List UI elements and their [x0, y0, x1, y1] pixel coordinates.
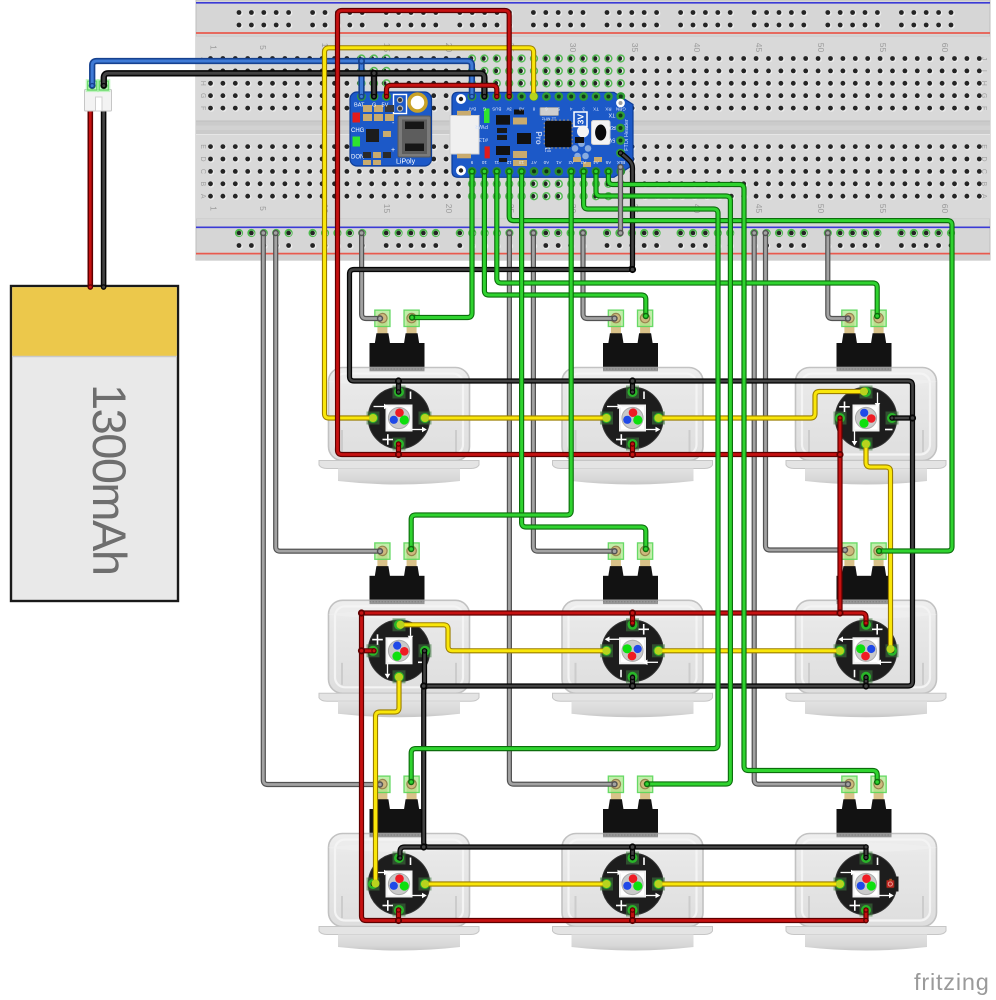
- battery JST connector: [85, 79, 112, 111]
- wire: Trinket 3V to NeoPixel row1 + rail (red): [338, 11, 843, 458]
- NeoPixel LED6: [834, 618, 899, 683]
- wire: NeoPixel7 + drop (red): [396, 907, 401, 923]
- wire: black branch to LiPo charger G: [371, 71, 376, 100]
- svg-text:5V: 5V: [608, 137, 615, 143]
- wire: blue branch to LiPo charger BAT: [359, 58, 364, 99]
- svg-text:30: 30: [568, 43, 578, 53]
- wire: Trinket FTDI GND to rail (gray): [617, 164, 623, 236]
- svg-text:A2: A2: [568, 160, 574, 165]
- svg-text:LiPoly: LiPoly: [396, 159, 416, 166]
- svg-text:A: A: [199, 194, 206, 199]
- svg-text:C: C: [980, 169, 987, 174]
- wire: NeoPixel5 GND drop (black): [630, 675, 635, 689]
- svg-text:1300mAh: 1300mAh: [83, 384, 136, 576]
- wire: NeoPixel8 + drop (red): [630, 907, 635, 923]
- svg-text:50: 50: [816, 43, 826, 53]
- wire: NeoPixel2 DOUT to NeoPixel3 DIN (yellow): [654, 387, 868, 422]
- wire: NeoPixel5 + drop (red): [630, 610, 635, 625]
- NeoPixel LED8: [600, 852, 665, 917]
- svg-text:3V: 3V: [506, 106, 511, 111]
- wire: NeoPixel3 + down to row2 (red): [837, 415, 842, 615]
- NeoPixel LED7: [367, 852, 432, 917]
- wire: NeoPixel1 GND drop (black): [396, 378, 401, 394]
- wire: + rail down to row3 (red): [359, 610, 869, 923]
- svg-text:A0: A0: [518, 106, 524, 111]
- breadboard: [196, 0, 990, 260]
- wire: battery - (JST) to Pro Trinket G (black): [101, 73, 487, 99]
- svg-text:G: G: [199, 93, 206, 98]
- svg-text:A0: A0: [543, 160, 549, 165]
- quick-connect terminal J7: [370, 776, 425, 837]
- arcade button S8: [553, 834, 713, 951]
- wire: NeoPixel4 + branch (red): [359, 648, 377, 653]
- wire: NeoPixel3 GND to chain (black): [889, 415, 915, 420]
- svg-text:C: C: [199, 169, 206, 174]
- svg-text:B: B: [199, 181, 206, 186]
- battery BAT1 1300mAh LiPo: [11, 286, 178, 601]
- svg-text:A3: A3: [580, 160, 586, 165]
- wire: switch S1 to GND rail (gray): [358, 230, 383, 322]
- wire: NeoPixel9 + drop (red): [863, 907, 868, 923]
- wire: battery + (JST) to Pro Trinket BAT (blue): [90, 61, 475, 99]
- wire: NeoPixel5 DOUT to NeoPixel4 DIN (yellow): [396, 621, 610, 655]
- svg-text:DON: DON: [351, 155, 364, 161]
- svg-text:11: 11: [494, 160, 499, 165]
- svg-text:I: I: [980, 70, 987, 72]
- svg-text:35: 35: [630, 43, 640, 53]
- wire: NeoPixel7 DOUT to NeoPixel8 DIN (yellow): [421, 880, 611, 888]
- wire: Trinket 11 to switch S3 (green): [494, 168, 881, 319]
- wire: NeoPixel6 DOUT to NeoPixel5 DIN (yellow): [654, 647, 844, 655]
- wire: Trinket 12 to switch S6 (green): [506, 168, 952, 554]
- wire: switch S3 to GND rail (gray): [825, 230, 852, 322]
- wire: NeoPixel4 DOUT to NeoPixel7 DIN (yellow): [371, 673, 403, 888]
- NeoPixel LED3: [834, 386, 899, 451]
- wire: switch S7 to GND rail (gray): [260, 230, 383, 788]
- NeoPixel LED5: [600, 618, 665, 683]
- wire: switch S9 to GND rail (gray): [751, 230, 851, 788]
- svg-text:A1: A1: [556, 160, 562, 165]
- svg-text:TX: TX: [608, 112, 615, 118]
- wire: Trinket A3 to switch S7 (green): [408, 168, 718, 785]
- microcontroller U1 Adafruit Pro Trinket 3V (rotated 180): [450, 92, 633, 177]
- NeoPixel LED4: [367, 618, 432, 683]
- svg-text:D: D: [199, 156, 206, 161]
- arcade button S6: [786, 600, 946, 717]
- wire: switch S6 to GND rail (gray): [762, 230, 848, 553]
- wire: Trinket pin 8 to NeoPixel1 DIN (yellow): [325, 48, 538, 422]
- quick-connect terminal J2: [603, 310, 658, 371]
- quick-connect terminal J1: [370, 310, 425, 371]
- svg-text:13: 13: [519, 160, 524, 165]
- wire: NeoPixel6 GND drop (black): [863, 675, 868, 689]
- svg-text:BAT: BAT: [354, 103, 365, 109]
- arcade button S7: [319, 834, 479, 951]
- svg-text:1: 1: [209, 206, 219, 211]
- svg-text:55: 55: [878, 204, 888, 214]
- svg-text:5: 5: [258, 45, 268, 50]
- wire: NeoPixel1 + drop (red): [396, 441, 401, 457]
- NeoPixel LED1: [367, 386, 432, 451]
- svg-text:5V: 5V: [382, 103, 389, 109]
- svg-text:RX: RX: [605, 106, 611, 111]
- wire: Trinket GND chain through all NeoPixels (black): [350, 150, 913, 849]
- svg-text:D: D: [980, 156, 987, 161]
- wire: NeoPixel4 GND to chain (black): [422, 648, 427, 689]
- arcade button S9: [786, 834, 946, 951]
- battery - lead: [101, 101, 106, 289]
- svg-text:45: 45: [754, 43, 764, 53]
- svg-text:60: 60: [940, 204, 950, 214]
- wire: Trinket A4 to switch S8 (green): [593, 168, 731, 787]
- svg-text:BUS: BUS: [492, 106, 501, 111]
- wire: NeoPixel2 + drop (red): [630, 441, 635, 457]
- svg-text:50: 50: [816, 204, 826, 214]
- svg-text:20: 20: [444, 204, 454, 214]
- svg-text:A4: A4: [593, 160, 599, 165]
- svg-text:B: B: [980, 181, 987, 186]
- svg-text:CHG: CHG: [351, 128, 365, 134]
- svg-text:45: 45: [754, 204, 764, 214]
- arcade button S2: [553, 368, 713, 485]
- NeoPixel LED9: [834, 852, 899, 917]
- svg-text:+: +: [391, 147, 395, 154]
- quick-connect terminal J3: [837, 310, 892, 371]
- wire: switch S8 to GND rail (gray): [506, 230, 618, 788]
- wire: Trinket 10 to switch S2 (green): [481, 168, 649, 319]
- svg-text:Pro: Pro: [534, 131, 543, 144]
- svg-text:H: H: [199, 81, 206, 86]
- NeoPixel chain terminator mark: [884, 877, 899, 892]
- wire: Trinket A2 to switch S4 (green): [408, 168, 574, 552]
- svg-text:FTDI Header: FTDI Header: [624, 119, 630, 151]
- svg-text:PWR: PWR: [475, 123, 488, 129]
- svg-text:TX: TX: [593, 106, 599, 111]
- quick-connect terminal J6: [837, 543, 892, 604]
- svg-text:BAT: BAT: [468, 106, 477, 111]
- svg-text:G: G: [372, 103, 376, 109]
- wire: Trinket 9 to switch S1 (green): [409, 168, 475, 320]
- wire: NeoPixel7 GND drop (black): [397, 844, 426, 860]
- svg-text:40: 40: [692, 43, 702, 53]
- wire: Trinket A5 to switch S9 (green): [605, 168, 880, 785]
- svg-text:15: 15: [382, 204, 392, 214]
- svg-text:G: G: [980, 93, 987, 98]
- svg-text:G: G: [482, 106, 486, 111]
- connected-strip highlights: [358, 55, 624, 200]
- wire: NeoPixel1 DOUT to NeoPixel2 DIN (yellow): [421, 414, 611, 422]
- wire: NeoPixel8 DOUT to NeoPixel9 DIN (yellow): [654, 880, 844, 888]
- svg-text:5: 5: [258, 206, 268, 211]
- svg-text:H: H: [980, 81, 987, 86]
- wire: LiPo charger 5V to Pro Trinket BUS (red): [384, 85, 500, 99]
- quick-connect terminal J4: [370, 543, 425, 604]
- svg-text:RX: RX: [608, 124, 616, 130]
- battery + lead: [88, 101, 93, 289]
- svg-text:E: E: [199, 144, 206, 149]
- quick-connect terminal J8: [603, 776, 658, 837]
- wire: NeoPixel8 GND drop (black): [630, 844, 635, 860]
- wire junctions: [358, 57, 365, 64]
- arcade button S5: [553, 600, 713, 717]
- wire: switch S5 to GND rail (gray): [530, 230, 618, 555]
- svg-text:10: 10: [481, 160, 486, 165]
- wire: switch S2 to GND rail (gray): [580, 230, 618, 322]
- quick-connect terminal J5: [603, 543, 658, 604]
- svg-text:1: 1: [209, 45, 219, 50]
- svg-text:12: 12: [506, 160, 511, 165]
- svg-text:J: J: [980, 57, 987, 61]
- wire: Trinket 13 to switch S5 (green): [518, 168, 649, 552]
- LiPo charger board U2 (Adafruit Micro-Lipo): [350, 92, 432, 166]
- svg-text:60: 60: [940, 43, 950, 53]
- svg-text:E: E: [980, 144, 987, 149]
- NeoPixel LED2: [600, 386, 665, 451]
- wire: row2 + rail to NeoPixel6 (red): [359, 610, 869, 625]
- quick-connect terminal J9: [837, 776, 892, 837]
- svg-text:F: F: [199, 106, 206, 110]
- arcade button S4: [319, 600, 479, 717]
- svg-text:3V: 3V: [575, 114, 585, 125]
- svg-text:fritzing: fritzing: [914, 969, 990, 995]
- wire: NeoPixel3 DOUT to NeoPixel6 DIN (yellow): [862, 440, 895, 653]
- svg-text:#13: #13: [479, 136, 488, 142]
- arcade button S1: [319, 368, 479, 485]
- svg-text:A5: A5: [605, 160, 611, 165]
- svg-text:F: F: [980, 106, 987, 110]
- wire: switch S4 to GND rail (gray): [273, 230, 384, 555]
- wire: NeoPixel2 GND drop (black): [630, 378, 635, 394]
- svg-text:A7: A7: [531, 160, 537, 165]
- wire: NeoPixel9 GND drop (black): [863, 844, 868, 860]
- arcade button S3: [786, 368, 946, 485]
- svg-text:A: A: [980, 194, 987, 199]
- svg-text:55: 55: [878, 43, 888, 53]
